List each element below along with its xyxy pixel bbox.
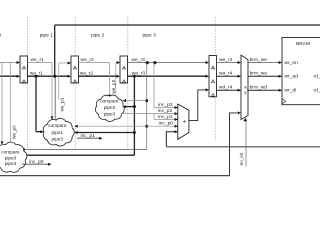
svg-text:wr_di: wr_di [285,88,297,94]
arrowhead into register R4 we [206,61,209,64]
arrowhead into cloud0 right thick [21,154,24,157]
svg-text:rd_di: rd_di [314,88,320,94]
svg-text:brm_wa: brm_wa [250,71,268,77]
wire: wa_p1 tap down (thick) [35,76,37,132]
arrowhead inc_p0 stub [48,163,51,166]
svg-text:pipe 3: pipe 3 [143,32,157,38]
junction dot we_r3 tap B [153,61,156,64]
svg-text:en_int: en_int [239,152,244,166]
wire: we_p3 into cloud2 [126,100,147,102]
arrowhead into adder input 5 [175,130,178,133]
svg-text:we_r1: we_r1 [31,57,45,63]
arrowhead down into cloud0 [1,142,4,145]
arrowhead into cloud1 left [40,130,43,133]
svg-text:inc_p1: inc_p1 [158,114,173,120]
arrowhead into adder inc_p1 [175,118,178,121]
svg-text:we_r4: we_r4 [219,57,233,63]
register R3 [120,56,128,83]
wire: we_p3 into cloud0 thin [25,149,147,151]
svg-text:+: + [183,119,187,125]
arrowhead into BRAM wr_en [279,61,282,64]
arrowhead into mux we [238,61,241,64]
arrowhead into BRAM wr_ad [279,75,282,78]
pipe boundary dashed line 3 [127,17,129,150]
wire: wa_p0 input from left (thick) [0,75,17,77]
wire wd_r4 [217,89,241,91]
BRAM block [282,38,320,105]
wire we_r3 [128,62,209,64]
svg-text:we_p1: we_p1 [60,97,65,111]
wire we_p2 return leg [115,63,117,96]
wire: second tap down to cloud0 with arrow [9,63,11,147]
svg-text:compare: compare [48,123,67,128]
arrowhead into cloud2 right [123,105,126,108]
wire: we_p0 tap down to cloud0 [1,63,3,142]
svg-text:wd_r4: wd_r4 [219,84,233,90]
wire: long bottom bus [0,175,230,177]
mux wr_all [241,55,248,121]
wire we_r4 [217,62,241,64]
wire: we_p2 tap down with arrow [109,63,111,96]
arrowhead into adder inc_p0 [175,125,178,128]
register R4 [209,56,217,97]
svg-text:wr_en: wr_en [285,60,299,66]
svg-text:we_r3: we_r3 [132,57,146,63]
wire we_r2 [79,62,110,64]
svg-text:wa_r4: wa_r4 [219,71,233,77]
wire: we_p1 tap down with arrow [51,63,53,118]
wire we_r2 segment into R3 [116,62,119,64]
wire: inc_p3 vertical from we_r3 tap B [153,63,155,108]
wire wa_r3 (thick) [128,75,207,77]
arrowhead into register R3 we [117,61,120,64]
wire wa_r1 (thick) [28,75,69,77]
svg-text:we_p2: we_p2 [111,79,116,93]
wire: thin continuation down into compare cloud pipe1 [54,76,56,121]
wire: inc_p1 row into adder [154,118,177,120]
adder [178,104,189,139]
wire inc_p0 output stub [22,163,48,165]
compare cloud pipe0/pipe3 [0,142,27,172]
svg-text:pipe0: pipe0 [5,155,17,160]
wire: wa_p3 into cloud2 (thick) [126,106,134,108]
arrowhead into register R1 wa [17,75,20,78]
wire we_r1 segment into R2 [59,62,70,64]
arrowhead into cloud2 right gray [123,99,126,102]
wire: mux 4th input from bottom line [230,113,238,176]
wire: we_p0 input from left [0,62,19,64]
wire: wa_p3 into cloud1 (thick) [77,132,135,134]
pipe boundary dashed line 4 [214,17,216,140]
arrowhead into cloud1 right [74,131,77,134]
svg-text:inc_p3: inc_p3 [158,102,173,108]
wire brm_wa [248,75,281,77]
svg-text:pipe 1: pipe 1 [40,32,54,38]
svg-text:wr_ad: wr_ad [285,74,299,80]
svg-text:pipe2: pipe2 [104,105,116,110]
wire: adder output to R4 wd [189,90,206,121]
junction dot wa_p3 at cloud1 branch [133,131,136,134]
register R2 [71,56,79,83]
compare cloud pipe2/pipe3 [95,95,124,121]
arrowhead into BRAM wr_di [279,89,282,92]
svg-text:pipe3: pipe3 [104,112,116,117]
svg-text:BRAM: BRAM [296,41,310,47]
arrowhead into register R3 wa [117,75,120,78]
arrowhead into mux wa [238,75,241,78]
wire: top feedback horizontal [55,24,320,26]
arrowhead into register R4 wd [206,88,209,91]
arrowhead into cloud0 right thin [21,148,24,151]
junction dot we_p3 at cloud2 branch [145,99,148,102]
svg-text:inc_p2: inc_p2 [158,108,173,114]
wire: gray line cloud1 to adder (inc_p0 row) [76,125,177,127]
arrowhead down into cloud1 top [51,116,54,119]
arrowhead into register R4 wa [206,75,209,78]
wire inc_p1 output stub [77,137,99,139]
pipe boundary dashed line 1 [27,17,29,150]
wire: inc_p2 from cloud2 to adder [123,113,177,115]
svg-text:wr_al: wr_al [243,86,247,95]
junction dot wa_r3 tap [133,75,136,78]
svg-text:pipe3: pipe3 [5,161,17,166]
wire: wa_p3 vertical distribution (thick) [133,76,135,155]
compare cloud pipe1/pipe3 [43,118,74,146]
wire: we_p3 vertical distribution [146,63,148,150]
wire wa_r4 [217,75,241,77]
wire: wa_p1 into cloud1 left [36,131,41,133]
wire: inc_p3 into adder [154,107,177,109]
svg-text:pipe1: pipe1 [52,130,64,135]
arrowhead into adder inc_p2 [175,112,178,115]
wire we_r1 [28,62,53,64]
svg-text:pipe3: pipe3 [52,136,64,141]
junction dot wa_r1 to top feedback [53,75,56,78]
wire stub right we leg [58,63,60,100]
arrowhead into register R2 wa [68,75,71,78]
junction dot we_r3 tap A [146,61,149,64]
register R1 [20,56,28,83]
svg-text:compare: compare [1,150,20,155]
wire: inc_p1 short vertical [153,114,155,120]
junction dot wa_r1 tap [35,75,38,78]
wire wa_r2 (thick) [79,75,118,77]
wire: mux enable from bottom [245,122,247,167]
svg-text:we_p0: we_p0 [12,125,17,139]
wire: wa_p3 into cloud0 (thick) [25,154,135,156]
arrowhead inc_p1 stub [99,137,102,140]
wire: adder 5th input feedback [166,132,176,147]
arrowhead into mux input 4 [238,111,241,114]
wire brm_wd [248,89,281,91]
arrowhead into register R1 we [17,61,20,64]
svg-text:brm_we: brm_we [250,57,268,63]
arrowhead into mux wd [238,89,241,92]
wire: vertical from top feedback down to wa_r1 junction [54,25,56,76]
svg-text:brm_wd: brm_wd [250,84,268,90]
junction dot we_p3 at inc_p0 line [145,125,148,128]
svg-text:rd_ad: rd_ad [314,74,320,80]
arrowhead down into cloud2 top [108,95,111,98]
wire: feedback horizontal to right edge [166,146,320,148]
wire brm_we [248,62,281,64]
svg-text:inc_p0: inc_p0 [159,120,174,126]
svg-text:we_r2: we_r2 [81,57,95,63]
svg-text:compare: compare [100,98,119,103]
junction dot wa_p3 at cloud2 branch [133,105,136,108]
arrowhead into register R2 we [68,62,71,65]
pipe boundary dashed line 2 [74,17,76,150]
arrowhead into adder inc_p3 [175,106,178,109]
arrowhead into cloud1 right gray [74,125,77,128]
svg-text:pipe 2: pipe 2 [91,32,105,38]
